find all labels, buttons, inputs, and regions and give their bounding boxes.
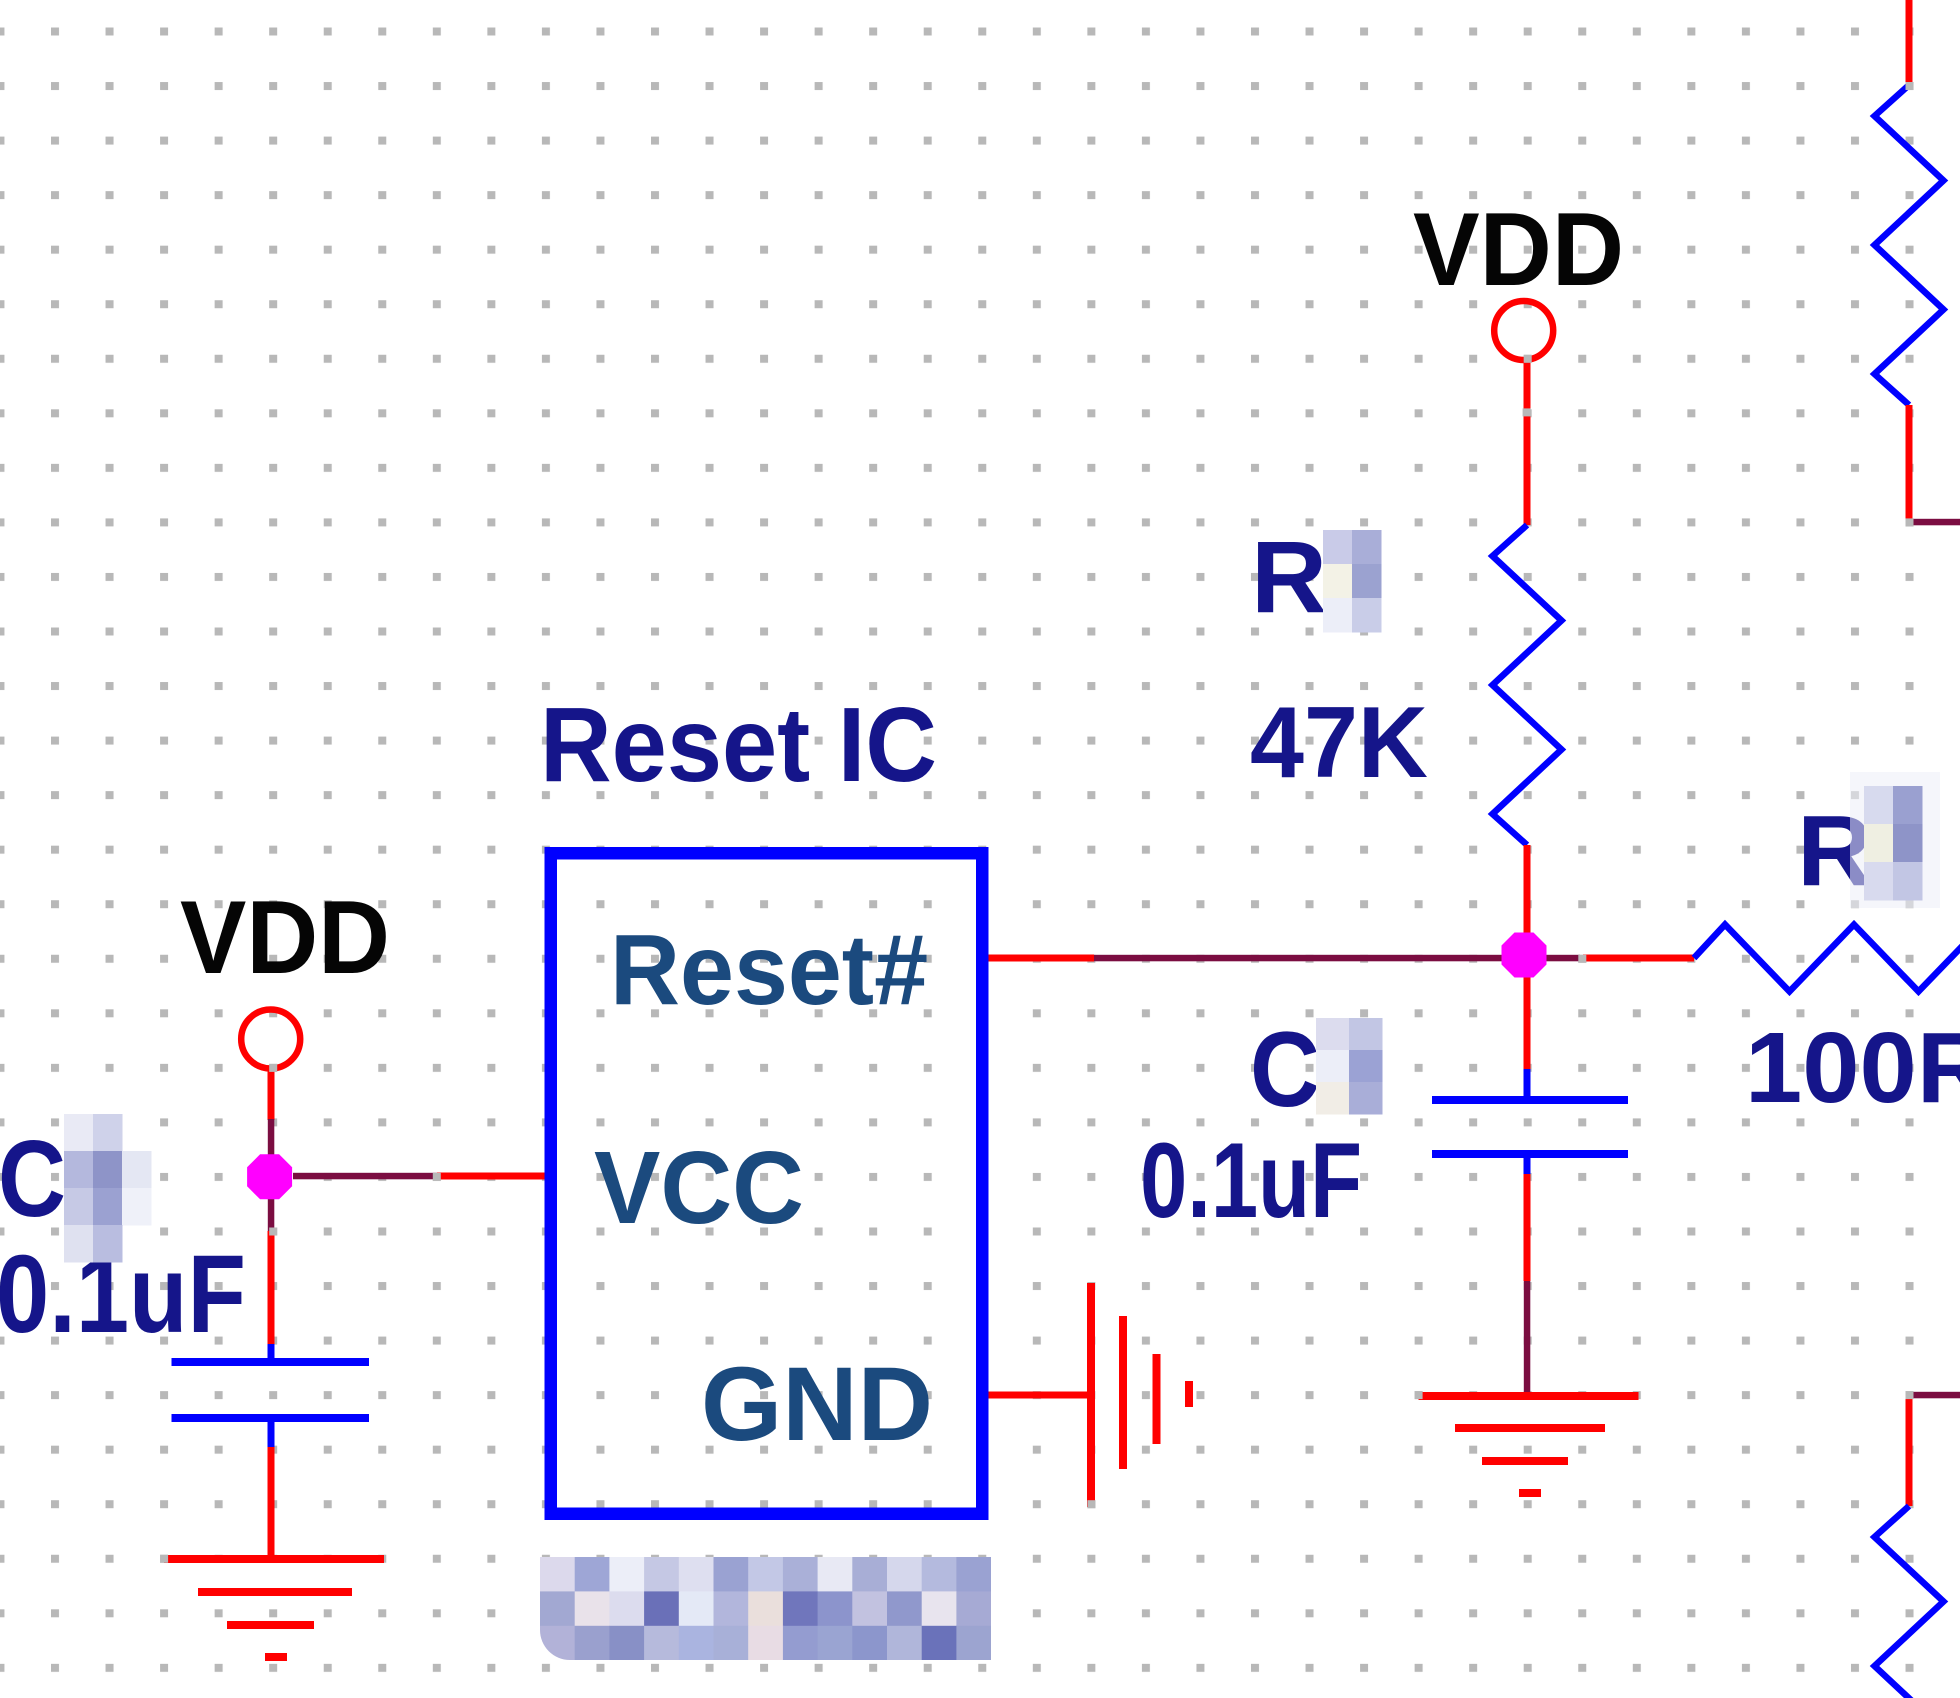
svg-text:R: R [1251, 520, 1327, 634]
svg-text:C: C [0, 1118, 66, 1240]
svg-text:Reset IC: Reset IC [540, 686, 937, 804]
svg-text:0.1uF: 0.1uF [0, 1233, 246, 1356]
svg-text:100R: 100R [1745, 1012, 1960, 1124]
svg-text:C: C [1250, 1009, 1320, 1129]
svg-text:VDD: VDD [1413, 192, 1624, 308]
svg-text:VDD: VDD [180, 880, 390, 996]
svg-text:0.1uF: 0.1uF [1140, 1120, 1362, 1240]
svg-text:47K: 47K [1250, 687, 1428, 799]
svg-text:Reset#: Reset# [610, 914, 928, 1026]
svg-text:GND: GND [701, 1346, 933, 1463]
svg-text:VCC: VCC [594, 1130, 804, 1245]
